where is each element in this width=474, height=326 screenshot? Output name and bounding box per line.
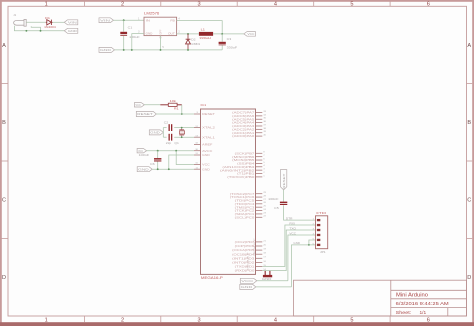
svg-text:C: C <box>467 198 471 204</box>
svg-text:D: D <box>2 275 6 281</box>
capacitor C6 100nF <box>154 158 161 160</box>
net flag VIN <box>64 20 78 25</box>
wire AGND pin <box>169 155 194 169</box>
wire OUT to L1 <box>177 33 199 35</box>
wire VCC flag horizontal <box>257 280 288 282</box>
junction C6 bottom <box>157 168 159 170</box>
svg-text:B: B <box>467 120 471 126</box>
frame row ticks and letters <box>0 43 472 281</box>
wire XTAL1 <box>163 136 194 138</box>
resistor R1 <box>160 103 182 106</box>
svg-text:FTDI: FTDI <box>316 211 326 215</box>
header pin numbers <box>313 219 315 246</box>
ground rail wire <box>115 49 223 51</box>
MCU IC1 MEGA16-P body <box>201 109 256 274</box>
wire J1 sleeve to GND <box>14 26 64 31</box>
junction VCC branch <box>175 150 177 152</box>
svg-text:3: 3 <box>197 318 200 324</box>
net flag VCC output <box>244 32 256 37</box>
wire TXO header pin3 to PD0 <box>262 230 315 271</box>
junction GND pin rail <box>131 49 133 51</box>
svg-text:5: 5 <box>350 318 353 324</box>
svg-text:A: A <box>2 43 6 49</box>
svg-text:XTAL1: XTAL1 <box>202 135 215 139</box>
svg-text:RESET: RESET <box>202 112 215 116</box>
wire DTR from C5 to header pin1 <box>284 205 316 220</box>
wire D1 to VIN flag <box>53 21 65 23</box>
junction switch pin <box>40 30 42 32</box>
net flag VCC avcc <box>137 149 147 153</box>
svg-text:OUT: OUT <box>168 32 175 36</box>
svg-text:VCC: VCC <box>202 163 211 167</box>
svg-text:J1: J1 <box>13 13 16 17</box>
inductor L1 <box>199 32 213 36</box>
wire R1 down to reset <box>181 105 183 114</box>
svg-text:C3: C3 <box>227 37 232 41</box>
svg-text:GND: GND <box>241 285 254 289</box>
wire GND header pin6 to flag <box>292 245 316 287</box>
svg-text:C5: C5 <box>274 206 279 210</box>
capacitor C1 <box>120 32 127 36</box>
junction CTS GND <box>308 244 310 246</box>
svg-text:RXI: RXI <box>289 222 295 225</box>
svg-text:GND: GND <box>146 32 153 36</box>
capacitor C2 <box>169 124 170 131</box>
junction reset net <box>181 113 183 115</box>
svg-text:MEGA16-P: MEGA16-P <box>201 276 223 280</box>
svg-text:(RXD)PD0: (RXD)PD0 <box>235 269 255 273</box>
IC1 port D pins <box>232 240 266 273</box>
svg-text:100uF: 100uF <box>129 35 140 39</box>
net flag VCC for R1 <box>134 103 144 107</box>
wire AVCC <box>147 150 194 152</box>
IC1 left pin names <box>202 112 215 171</box>
svg-text:5: 5 <box>350 2 353 8</box>
junction AGND rail <box>168 168 170 170</box>
net flag GND crystal <box>149 130 163 135</box>
svg-text:1/1: 1/1 <box>420 310 427 316</box>
svg-text:D2: D2 <box>191 37 196 41</box>
capacitor C4 <box>169 134 170 141</box>
wire L1 to output node <box>213 33 244 35</box>
wire GND rail mcu <box>152 168 194 170</box>
junction ON/OFF rail <box>160 49 162 51</box>
svg-text:GND: GND <box>68 29 78 33</box>
wire RXI header pin2 to PD1 <box>262 225 315 267</box>
svg-text:GND: GND <box>100 48 112 52</box>
IC1 port A pins <box>232 111 266 139</box>
net flag VCC bottom <box>240 278 256 283</box>
wire xtal gnd vertical <box>162 128 164 138</box>
junction crystal bottom <box>181 136 183 138</box>
svg-text:TXO: TXO <box>289 227 296 230</box>
wire C6 vertical <box>157 151 159 170</box>
svg-text:JP1: JP1 <box>320 250 326 254</box>
IC1 left pin numbers <box>195 112 198 169</box>
svg-text:VCC: VCC <box>241 279 254 283</box>
svg-text:FB: FB <box>170 19 175 23</box>
junction D2 top <box>187 33 189 35</box>
svg-text:R1: R1 <box>174 107 179 111</box>
junction crystal top <box>181 127 183 129</box>
svg-text:VCC: VCC <box>138 149 144 153</box>
wire J1 tip to D1 <box>26 21 46 23</box>
net flag GND bottom <box>240 284 256 289</box>
svg-text:C6: C6 <box>150 162 155 166</box>
svg-text:ON/OFF: ON/OFF <box>161 29 163 39</box>
svg-text:22p: 22p <box>166 141 172 145</box>
svg-text:C: C <box>2 198 6 204</box>
IC1 port B pins <box>220 151 265 179</box>
svg-text:1N5819: 1N5819 <box>191 42 200 46</box>
regulator U1 LM2576 body <box>144 17 177 35</box>
wire VCC to R1 <box>144 104 160 106</box>
svg-text:4: 4 <box>274 2 277 8</box>
capacitor C3 <box>219 42 226 45</box>
wire LM2576 GND pin <box>132 34 144 50</box>
svg-text:(SCL)PC0: (SCL)PC0 <box>235 215 255 219</box>
svg-text:330uH: 330uH <box>199 36 211 40</box>
junction C6 top <box>157 150 159 152</box>
svg-text:10k: 10k <box>170 99 177 103</box>
svg-text:1N4004: 1N4004 <box>44 25 56 29</box>
svg-text:3: 3 <box>197 2 200 8</box>
sheet text <box>396 310 427 316</box>
connector J1 power jack <box>13 13 26 26</box>
svg-text:GND: GND <box>202 153 211 157</box>
svg-text:6: 6 <box>427 2 430 8</box>
svg-text:MEGA16-P: MEGA16-P <box>253 238 256 256</box>
wire C1 vertical <box>123 20 125 50</box>
svg-text:GND: GND <box>138 167 150 171</box>
svg-text:IN: IN <box>146 19 150 23</box>
svg-text:2: 2 <box>121 2 124 8</box>
svg-text:VCC: VCC <box>135 103 141 107</box>
IC1 port C pins <box>230 192 267 220</box>
net flag GND <box>64 28 78 33</box>
diode D1 <box>46 20 53 25</box>
connector JP1 FTDI header <box>316 216 328 249</box>
svg-text:VIN: VIN <box>68 20 77 24</box>
svg-text:Mini Arduino: Mini Arduino <box>396 292 428 298</box>
svg-text:GND: GND <box>293 242 300 245</box>
IC1 left pin stubs <box>194 114 201 169</box>
ground symbol pair below PD0 wire <box>262 271 272 281</box>
svg-text:B: B <box>2 120 6 126</box>
wire VCC branch to VCC pin <box>176 151 194 165</box>
svg-text:LM2576: LM2576 <box>144 11 159 15</box>
wire ON/OFF to rail <box>160 36 162 50</box>
svg-text:D: D <box>467 275 471 281</box>
svg-text:GND: GND <box>262 278 272 281</box>
net flag VIN regulator input <box>99 18 114 23</box>
svg-text:(ADC0)PA0: (ADC0)PA0 <box>232 134 255 138</box>
svg-text:DTR: DTR <box>286 217 293 220</box>
svg-text:VIN: VIN <box>100 18 110 22</box>
wire J1 switch pin step <box>31 26 40 31</box>
svg-text:D1: D1 <box>45 16 50 20</box>
svg-text:100nF: 100nF <box>268 197 279 201</box>
wire RESET to IC1 <box>156 113 194 115</box>
wire reset flag to C5 <box>283 190 285 202</box>
svg-text:2: 2 <box>121 318 124 324</box>
title block <box>294 280 467 316</box>
svg-text:Q1: Q1 <box>174 141 179 145</box>
net flag RESET <box>136 111 156 116</box>
svg-text:(T0/XCK)PB0: (T0/XCK)PB0 <box>227 175 254 179</box>
net flag RESET vertical <box>280 170 286 190</box>
wire VCC header pin4 to flag <box>288 235 316 281</box>
wire CTS header pin5 <box>309 240 316 245</box>
svg-text:1: 1 <box>45 2 48 8</box>
wire XTAL2 <box>163 127 194 129</box>
svg-text:100nF: 100nF <box>139 153 150 157</box>
junction D2 bottom <box>187 49 189 51</box>
svg-text:330uF: 330uF <box>227 45 238 49</box>
svg-text:1: 1 <box>45 318 48 324</box>
junction on ground wire <box>25 30 27 32</box>
svg-text:RESET: RESET <box>137 112 153 116</box>
junction C1 top <box>123 19 125 21</box>
svg-text:C1: C1 <box>128 26 133 30</box>
svg-text:MEGA16-P: MEGA16-P <box>246 252 249 270</box>
svg-text:XTAL2: XTAL2 <box>202 126 215 130</box>
diode D2 schottky <box>186 34 191 50</box>
svg-text:VCC: VCC <box>289 232 296 235</box>
net flag GND regulator <box>99 47 115 52</box>
svg-text:GND: GND <box>150 131 161 135</box>
wire GND flag horizontal <box>256 286 292 288</box>
svg-text:C2: C2 <box>164 120 169 124</box>
svg-text:IC1: IC1 <box>201 103 207 107</box>
wire C3 vertical <box>221 34 223 50</box>
svg-text:Sheet:: Sheet: <box>396 310 412 316</box>
svg-text:L1: L1 <box>201 27 206 31</box>
net flag GND mcu <box>137 167 152 172</box>
svg-text:A: A <box>467 43 471 49</box>
junction output node <box>221 33 223 35</box>
svg-text:6/3/2016 9:44:25 AM: 6/3/2016 9:44:25 AM <box>396 301 449 307</box>
capacitor C5 100nF <box>280 202 287 204</box>
junction C1 bottom <box>123 49 125 51</box>
wire VIN to LM2576 IN <box>114 19 145 21</box>
svg-text:6: 6 <box>427 318 430 324</box>
crystal Q1 <box>179 128 184 138</box>
wire FB feedback <box>177 21 223 34</box>
svg-text:4: 4 <box>274 318 277 324</box>
svg-text:AREF: AREF <box>202 143 212 147</box>
svg-text:VCC: VCC <box>247 32 255 36</box>
svg-text:RESET: RESET <box>282 173 286 189</box>
svg-text:GND: GND <box>202 167 211 171</box>
